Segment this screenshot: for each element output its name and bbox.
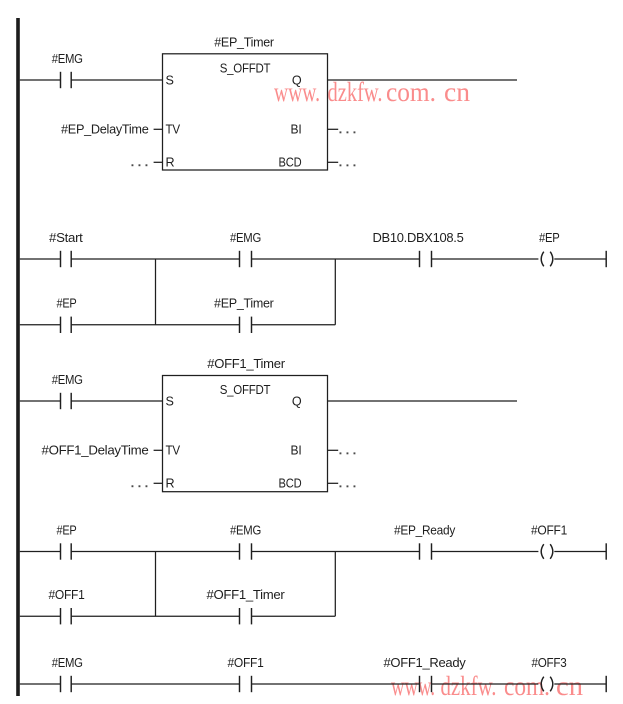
wire BCD output stub of #EP_Timer — [328, 161, 339, 163]
wire contact #EMG to S input of #OFF1_Timer — [71, 400, 162, 402]
contact #OFF1_Timer (branch network 4) — [207, 587, 286, 624]
contact #EMG (network 3) — [52, 372, 83, 409]
right rail end bar — [605, 676, 607, 692]
contact #EP (network 4) — [57, 522, 77, 559]
wire Q output of #OFF1_Timer — [328, 400, 518, 402]
wire contact #EMG to contact #OFF1 (network 5) — [71, 683, 239, 685]
svg-text:dzkfw.: dzkfw. — [328, 77, 383, 107]
coil #OFF1 — [531, 522, 567, 559]
wire rail to contact #EMG (network 3) — [20, 400, 61, 402]
svg-text:#EP: #EP — [57, 296, 77, 311]
wire contact #EP_Timer to branch join — [252, 324, 336, 326]
coil #OFF3 — [532, 655, 567, 692]
wire contact #EMG to contact DB10.DBX108.5 — [252, 258, 420, 260]
svg-text:BI: BI — [291, 123, 302, 137]
wire TV input stub of #EP_Timer — [154, 128, 163, 130]
svg-text:S_OFFDT: S_OFFDT — [220, 60, 271, 75]
unconnected marker ... on R input of #OFF1_Timer — [132, 485, 148, 487]
svg-text:#EMG: #EMG — [230, 230, 261, 245]
timer block #EP_Timer (S_OFFDT) box — [163, 54, 328, 170]
wire contact #OFF1 to contact #OFF1_Timer — [71, 615, 239, 617]
coil #EP — [539, 230, 560, 266]
unconnected marker ... on BI output of #OFF1_Timer — [340, 452, 356, 454]
wire contact #Start to contact #EMG (network 2) — [71, 258, 239, 260]
svg-text:#OFF3: #OFF3 — [532, 655, 567, 670]
unconnected marker ... on BCD output of #EP_Timer — [340, 164, 356, 166]
svg-text:com.: com. — [504, 671, 550, 701]
node junction right branch (network 4) — [334, 552, 336, 617]
wire contact #EP to contact #EMG (network 4) — [71, 551, 239, 553]
wire coil #EP to right rail — [554, 258, 606, 260]
svg-text:#EMG: #EMG — [52, 655, 83, 670]
contact DB10.DBX108.5 — [373, 230, 464, 267]
contact #OFF1 (network 5) — [228, 655, 264, 692]
svg-text:S: S — [166, 74, 174, 88]
left power rail — [16, 18, 20, 696]
unconnected marker ... on R input of #EP_Timer — [132, 164, 148, 166]
wire contact #EP to contact #EP_Timer — [71, 324, 239, 326]
wire coil #OFF1 to right rail — [554, 551, 606, 553]
watermark www.dzkfw.com.cn (top) — [274, 77, 471, 107]
wire contact #EP_Ready to coil #OFF1 — [432, 551, 539, 553]
wire BCD output stub of #OFF1_Timer — [328, 482, 339, 484]
svg-text:#OFF1_Timer: #OFF1_Timer — [207, 587, 286, 602]
wire rail to contact #Start — [20, 258, 61, 260]
svg-text:#OFF1: #OFF1 — [228, 655, 264, 670]
svg-text:com.: com. — [386, 77, 436, 107]
contact #OFF1_Ready — [384, 655, 467, 692]
svg-text:#EP_Timer: #EP_Timer — [214, 296, 274, 311]
contact #EP_Ready — [394, 522, 456, 559]
svg-text:S: S — [166, 395, 174, 409]
svg-text:dzkfw.: dzkfw. — [441, 671, 497, 701]
svg-text:#EMG: #EMG — [52, 51, 83, 66]
svg-text:#OFF1_DelayTime: #OFF1_DelayTime — [42, 442, 149, 457]
svg-text:Q: Q — [292, 74, 302, 88]
svg-text:S_OFFDT: S_OFFDT — [220, 382, 271, 397]
wire rail to contact #EP (branch) — [20, 324, 61, 326]
svg-text:#EP_Ready: #EP_Ready — [394, 522, 456, 537]
contact #EMG (network 1) — [52, 51, 83, 88]
svg-text:#OFF1_Ready: #OFF1_Ready — [384, 655, 467, 670]
contact #EMG (network 5) — [52, 655, 83, 692]
node junction right branch (network 2) — [334, 259, 336, 325]
svg-text:DB10.DBX108.5: DB10.DBX108.5 — [373, 230, 464, 245]
wire contact #EMG to contact #EP_Ready — [252, 551, 420, 553]
wire contact #OFF1_Ready to coil #OFF3 — [432, 683, 539, 685]
unconnected marker ... on BCD output of #OFF1_Timer — [340, 485, 356, 487]
svg-text:www.: www. — [391, 671, 435, 701]
svg-text:#EP_Timer: #EP_Timer — [214, 34, 274, 49]
svg-text:TV: TV — [166, 444, 181, 458]
svg-text:R: R — [166, 156, 175, 170]
contact #EMG (network 4) — [230, 522, 261, 559]
wire contact DB10.DBX108.5 to coil #EP — [432, 258, 539, 260]
timer block #OFF1_Timer (S_OFFDT) box — [163, 376, 328, 492]
wire rail to contact #EMG (network 1) — [20, 79, 61, 81]
contact #EP_Timer (branch network 2) — [214, 296, 274, 333]
wire Q output of #EP_Timer — [328, 79, 518, 81]
wire R input stub of #EP_Timer — [154, 161, 163, 163]
wire R input stub of #OFF1_Timer — [154, 482, 163, 484]
node junction left branch (network 4) — [155, 552, 157, 617]
right rail end bar — [605, 251, 607, 267]
svg-text:#OFF1: #OFF1 — [49, 587, 85, 602]
watermark www.dzkfw.com.cn (bottom) — [391, 671, 584, 701]
contact #Start — [49, 230, 83, 267]
wire rail to contact #EP (network 4) — [20, 551, 61, 553]
wire rail to contact #OFF1 (branch) — [20, 615, 61, 617]
svg-text:#OFF1_Timer: #OFF1_Timer — [207, 356, 285, 371]
svg-text:#OFF1: #OFF1 — [531, 522, 567, 537]
svg-text:R: R — [166, 477, 175, 491]
wire rail to contact #EMG (network 5) — [20, 683, 61, 685]
svg-text:BI: BI — [291, 444, 302, 458]
contact #EMG (network 2) — [230, 230, 261, 267]
svg-text:#EP_DelayTime: #EP_DelayTime — [61, 121, 149, 136]
svg-text:#EP: #EP — [57, 522, 77, 537]
wire contact #EMG to S input of #EP_Timer — [71, 79, 162, 81]
svg-text:cn: cn — [444, 77, 471, 107]
contact #EP (branch network 2) — [57, 296, 77, 333]
svg-text:BCD: BCD — [279, 156, 302, 170]
svg-text:#EMG: #EMG — [230, 522, 261, 537]
right rail end bar — [605, 543, 607, 559]
wire contact #OFF1 to contact #OFF1_Ready — [252, 683, 420, 685]
wire BI output stub of #OFF1_Timer — [328, 449, 339, 451]
unconnected marker ... on BI output of #EP_Timer — [340, 131, 356, 133]
wire TV input stub of #OFF1_Timer — [154, 449, 163, 451]
wire contact #OFF1_Timer to branch join — [252, 615, 336, 617]
wire coil #OFF3 to right rail — [554, 683, 606, 685]
svg-text:#EMG: #EMG — [52, 372, 83, 387]
svg-text:#EP: #EP — [539, 230, 560, 245]
svg-text:TV: TV — [166, 123, 181, 137]
wire BI output stub of #EP_Timer — [328, 128, 339, 130]
svg-text:cn: cn — [556, 671, 584, 701]
svg-text:#Start: #Start — [49, 230, 83, 245]
svg-text:BCD: BCD — [279, 477, 302, 491]
node junction left branch (network 2) — [155, 259, 157, 325]
svg-text:Q: Q — [292, 395, 302, 409]
contact #OFF1 (branch network 4) — [49, 587, 85, 624]
